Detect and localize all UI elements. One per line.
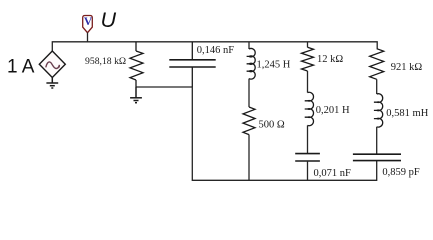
current source sine symbol <box>46 62 60 69</box>
inductor L1 1,245 H <box>247 49 256 80</box>
inductor L2 0,201 H <box>305 92 314 125</box>
svg-text:1 A: 1 A <box>7 57 35 78</box>
branch 3 wire r-l <box>376 79 378 94</box>
branch 1 middle wire <box>248 79 250 107</box>
branch 2 wire l-c <box>307 125 309 153</box>
bottom rail wire <box>192 87 376 180</box>
ground under R1 <box>130 87 142 103</box>
svg-text:958,18 kΩ: 958,18 kΩ <box>85 56 126 67</box>
branch 2 wire top <box>307 42 309 48</box>
middle wire resistor R1 bottom to capacitor node <box>136 86 192 88</box>
resistor R2 500 Ohm <box>243 107 255 135</box>
branch 3 resistor R4 921 k <box>370 49 384 80</box>
svg-text:0,581 mH: 0,581 mH <box>386 108 428 119</box>
capacitor C2 0,071 nF <box>295 154 320 161</box>
voltage probe U balloon <box>83 16 93 33</box>
ground under source <box>46 78 58 89</box>
branch 1 bottom wire <box>248 135 250 181</box>
svg-text:1,245 H: 1,245 H <box>257 60 291 71</box>
svg-text:921 kΩ: 921 kΩ <box>391 62 423 73</box>
svg-text:V: V <box>84 16 93 28</box>
top rail wire <box>52 42 377 51</box>
capacitor C3 0,859 pF <box>353 154 401 160</box>
svg-text:12 kΩ: 12 kΩ <box>317 54 343 65</box>
svg-text:U: U <box>101 8 117 32</box>
branch 2 bottom wire <box>307 161 309 180</box>
branch 3 wire l-c <box>376 127 378 154</box>
capacitor C1 0,146 nF <box>169 42 215 87</box>
current source I1 diamond <box>39 51 65 78</box>
probe stem wire <box>87 33 89 42</box>
branch 2 wire r-l <box>307 71 309 93</box>
svg-text:0,201 H: 0,201 H <box>316 105 350 116</box>
inductor L3 0,581 mH <box>374 94 383 127</box>
svg-text:0,859 pF: 0,859 pF <box>382 167 420 178</box>
svg-text:500 Ω: 500 Ω <box>259 119 285 130</box>
svg-text:0,071 nF: 0,071 nF <box>314 168 352 179</box>
branch 1 wire top <box>248 42 250 49</box>
svg-text:0,146 nF: 0,146 nF <box>197 45 235 56</box>
resistor R1 958,18 k <box>130 42 143 87</box>
resistor R3 12 k <box>302 47 314 71</box>
